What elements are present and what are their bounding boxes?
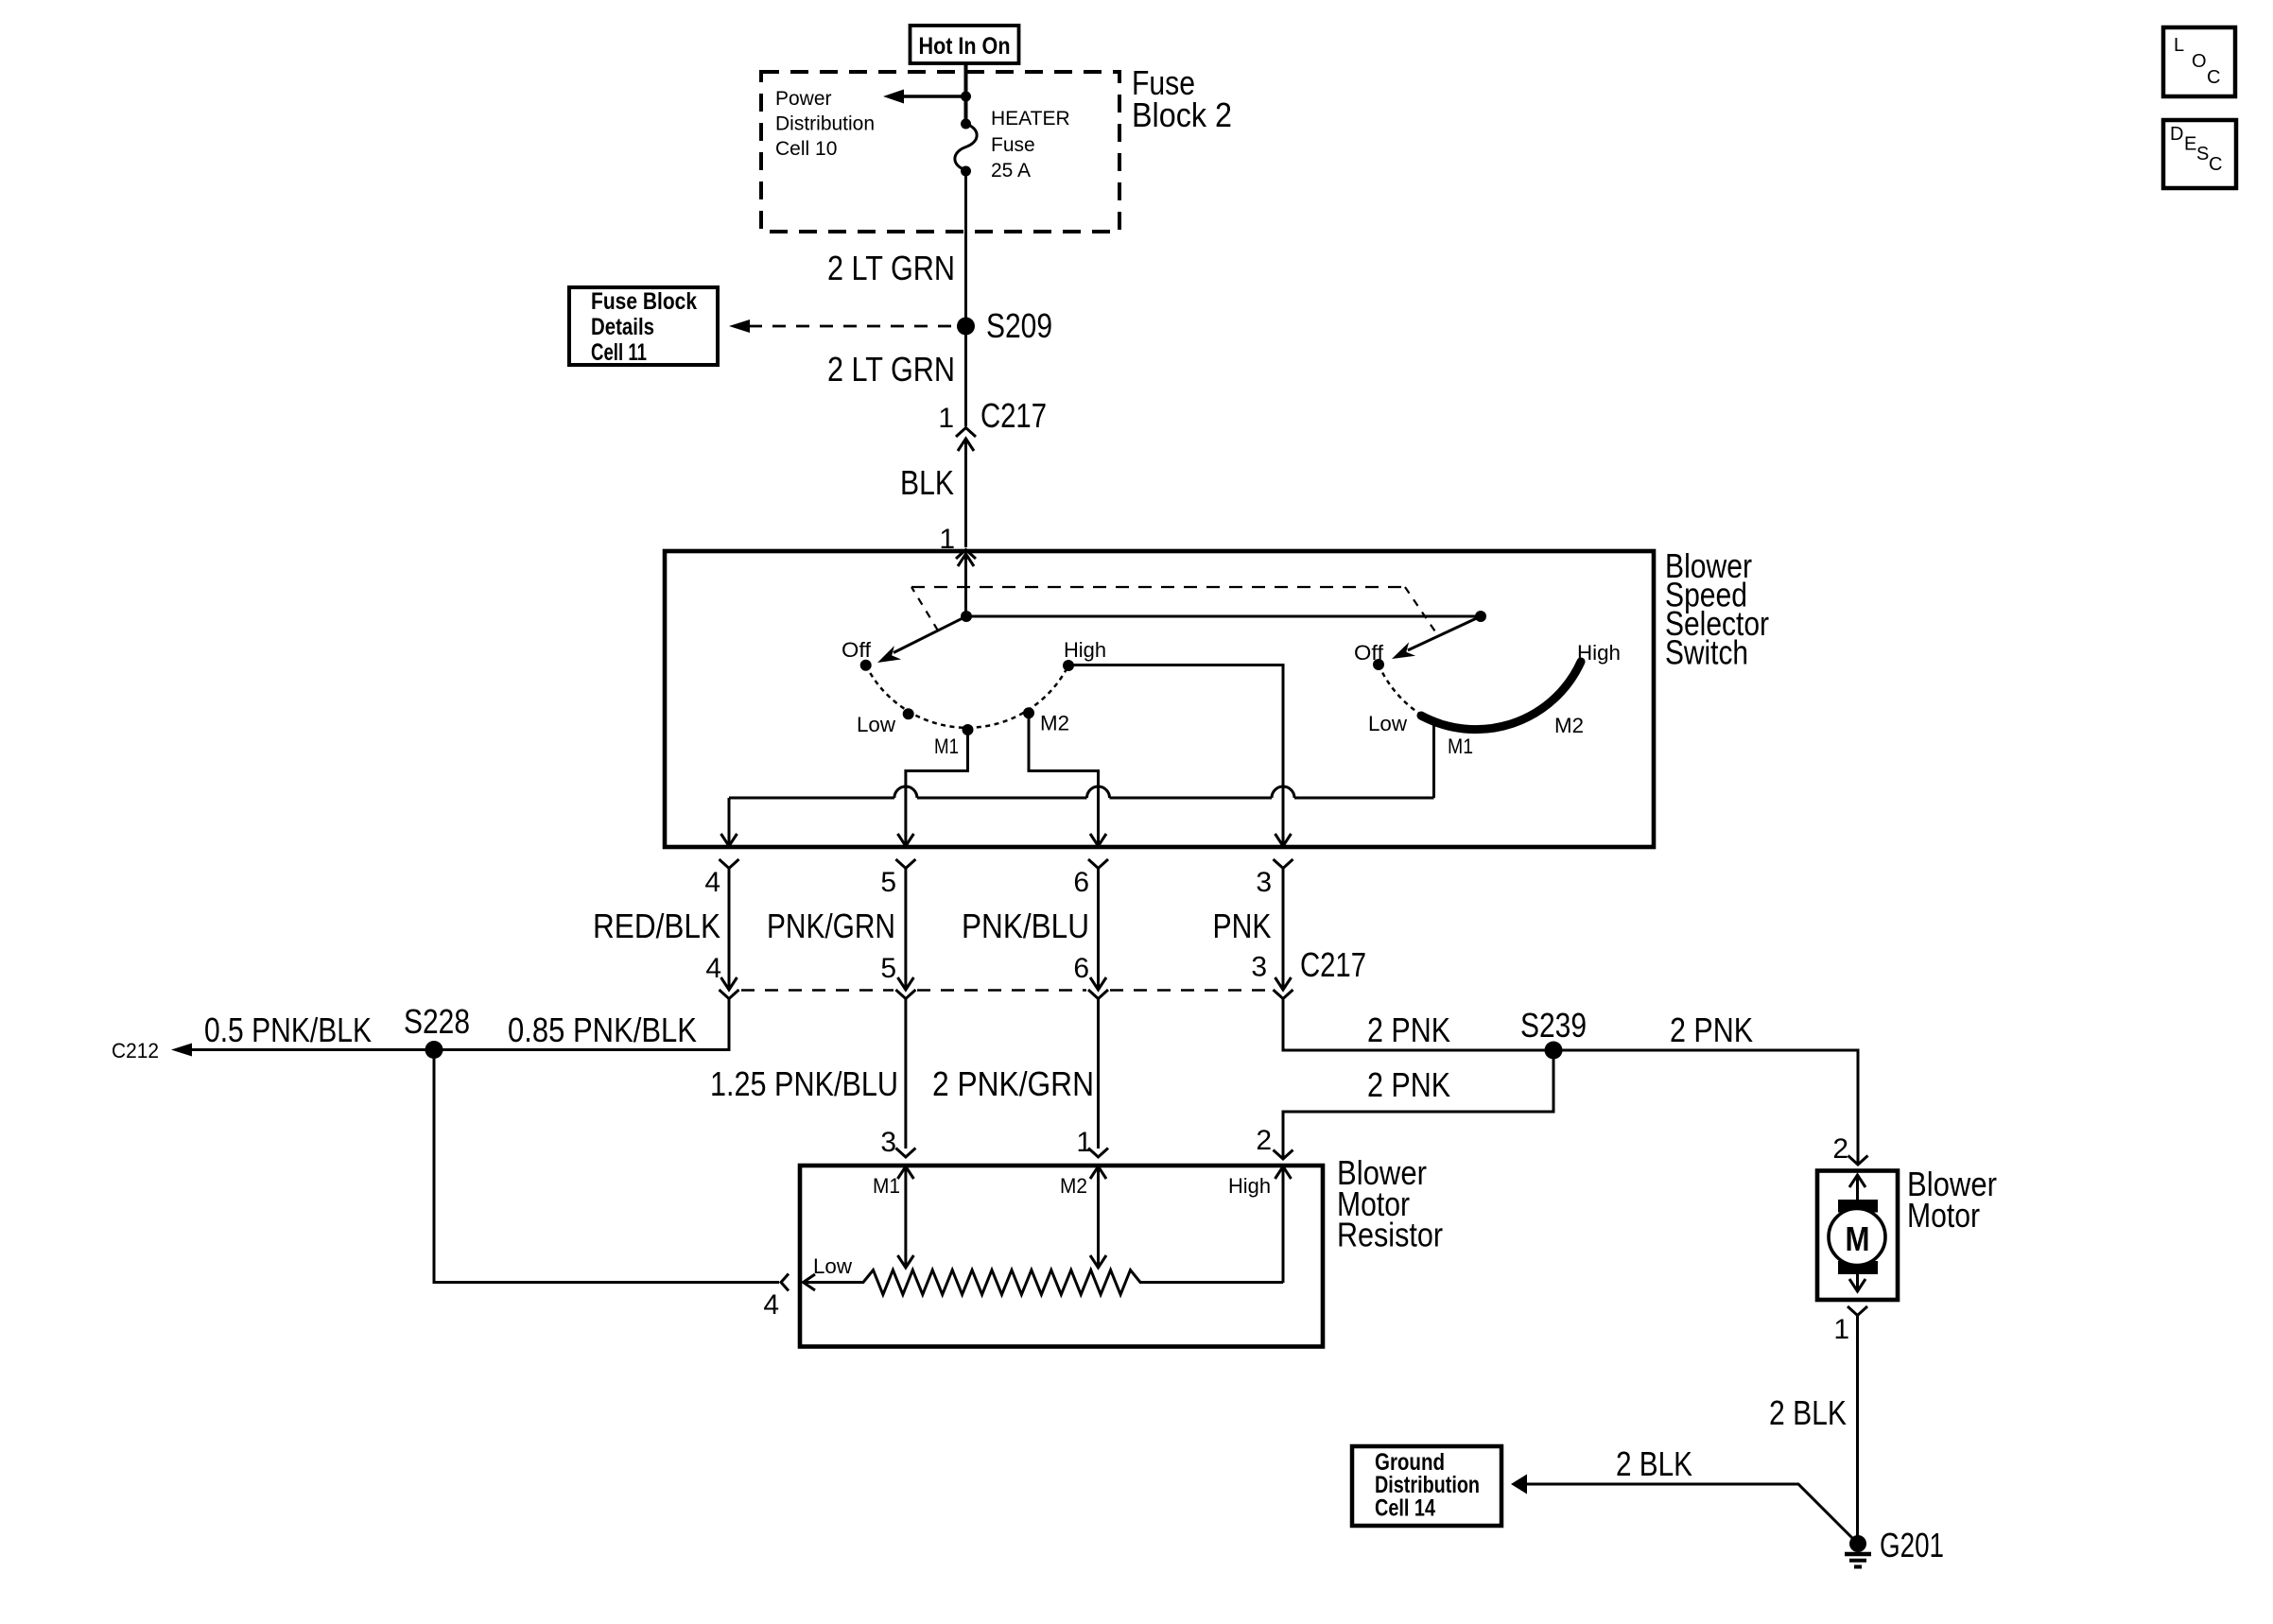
fuse block 2 dashed outline — [761, 72, 1119, 232]
wire: pivot link bar — [966, 615, 1481, 618]
svg-text:1: 1 — [1833, 1314, 1849, 1345]
svg-text:High: High — [1577, 641, 1621, 665]
svg-text:S209: S209 — [986, 306, 1052, 345]
svg-text:Fuse: Fuse — [991, 134, 1035, 156]
svg-text:C217: C217 — [980, 396, 1047, 435]
svg-text:3: 3 — [1256, 867, 1272, 898]
svg-text:2 LT GRN: 2 LT GRN — [827, 350, 955, 389]
svg-text:S239: S239 — [1520, 1006, 1587, 1045]
svg-text:G201: G201 — [1880, 1526, 1944, 1564]
svg-text:M1: M1 — [934, 734, 959, 758]
svg-text:Off: Off — [1354, 641, 1384, 665]
svg-text:3: 3 — [880, 1127, 896, 1158]
svg-text:Off: Off — [842, 638, 872, 662]
switch position M1 (left) — [934, 724, 974, 758]
blower motor box — [1817, 1171, 1898, 1301]
svg-text:RED/BLK: RED/BLK — [593, 907, 720, 945]
svg-text:O: O — [2192, 51, 2207, 72]
wiper arrow right — [1392, 616, 1481, 659]
wire: M1 contact to pin 5 — [906, 730, 968, 846]
wire: Hot In On down into fuse block — [964, 63, 968, 124]
C217 pin 4 — [705, 953, 738, 999]
svg-text:4: 4 — [763, 1289, 779, 1321]
wire: pin4 down to S228 run — [176, 999, 729, 1050]
wire: ground run 2 BLK — [1527, 1444, 1858, 1544]
svg-text:Cell 10: Cell 10 — [775, 138, 837, 160]
svg-text:4: 4 — [705, 953, 721, 984]
switch pin 3 connector — [1256, 859, 1293, 898]
wire: M2 contact to pin 6 — [1029, 713, 1099, 846]
wire pin4 to C217 — [728, 869, 731, 990]
switch position High (left) — [1063, 638, 1106, 671]
svg-text:PNK/BLU: PNK/BLU — [962, 907, 1089, 945]
switch position Off (right) — [1354, 641, 1384, 670]
splice S239 — [1520, 1006, 1587, 1060]
svg-text:Distribution: Distribution — [775, 113, 875, 135]
wiper arrow left — [877, 616, 966, 663]
arrow from ground distribution — [1511, 1475, 1527, 1494]
blower motor connector pin 1 — [1833, 1306, 1867, 1345]
resistor element High tap — [1228, 1166, 1292, 1283]
svg-text:C217: C217 — [1300, 945, 1366, 984]
svg-text:1: 1 — [938, 403, 954, 434]
svg-text:6: 6 — [1073, 953, 1089, 984]
svg-text:2 LT GRN: 2 LT GRN — [827, 249, 955, 287]
text "Power Distribution Cell 10" — [775, 88, 875, 160]
resistor pin 4 connector (Low) — [763, 1274, 815, 1322]
component label "Fuse Block 2" — [1132, 63, 1232, 134]
svg-text:5: 5 — [880, 953, 896, 984]
switch pin 5 connector — [880, 859, 915, 898]
svg-text:M1: M1 — [1448, 734, 1473, 758]
wire: C217 to switch pin 1, BLK — [900, 439, 966, 547]
svg-text:L: L — [2174, 35, 2184, 56]
wire pin5 to C217 — [904, 869, 907, 990]
wire: fuse to S209 — [964, 171, 967, 326]
junction dot feed split — [961, 92, 971, 102]
svg-text:D: D — [2170, 124, 2183, 145]
switch pin arrows at box bottom — [721, 834, 1292, 846]
svg-text:Power: Power — [775, 88, 832, 110]
component label "Blower Speed Selector Switch" — [1665, 546, 1769, 672]
svg-text:Cell 11: Cell 11 — [591, 339, 647, 366]
DESC reference box — [2163, 120, 2236, 188]
svg-text:M1: M1 — [873, 1174, 900, 1198]
component label "Blower Motor" — [1907, 1165, 1997, 1235]
svg-text:High: High — [1064, 638, 1106, 662]
dashed rotor arc right — [1379, 665, 1421, 715]
svg-text:Low: Low — [1368, 712, 1407, 735]
svg-text:1: 1 — [1076, 1127, 1092, 1158]
wire: S239 right to motor drop — [1553, 1050, 1858, 1163]
svg-text:0.85 PNK/BLK: 0.85 PNK/BLK — [508, 1011, 697, 1049]
wire: motor to G201, 2 BLK — [1769, 1316, 1858, 1545]
svg-text:2 PNK: 2 PNK — [1367, 1065, 1450, 1104]
wire: pin5 down to resistor pin 3 — [904, 999, 907, 1149]
svg-text:Low: Low — [813, 1254, 852, 1278]
svg-text:Details: Details — [591, 314, 654, 340]
resistor element M1 tap — [873, 1166, 913, 1268]
svg-text:Block 2: Block 2 — [1132, 95, 1232, 134]
motor M symbol — [1829, 1175, 1885, 1291]
svg-text:M2: M2 — [1040, 712, 1069, 735]
splice S228 — [404, 1002, 470, 1059]
svg-text:Resistor: Resistor — [1337, 1216, 1443, 1254]
switch pin 4 connector — [704, 859, 738, 898]
box "Ground Distribution Cell 14" — [1352, 1446, 1501, 1526]
svg-text:3: 3 — [1251, 952, 1267, 983]
svg-text:High: High — [1228, 1174, 1271, 1198]
ground G201 — [1845, 1526, 1944, 1567]
dashed arrow to Fuse Block Details — [729, 320, 957, 333]
svg-text:HEATER: HEATER — [991, 108, 1070, 130]
svg-text:2: 2 — [1832, 1133, 1848, 1165]
resistor pin 1 connector — [1076, 1127, 1108, 1158]
svg-text:C: C — [2209, 154, 2222, 175]
resistor element M2 tap — [1060, 1166, 1106, 1268]
svg-text:PNK: PNK — [1213, 907, 1272, 945]
dashed rotor arc left — [866, 665, 1068, 728]
svg-text:Motor: Motor — [1907, 1196, 1980, 1235]
svg-text:Hot In On: Hot In On — [919, 33, 1011, 60]
svg-text:0.5 PNK/BLK: 0.5 PNK/BLK — [204, 1011, 372, 1049]
thick contact arc right (Low-M1-M2-High) — [1421, 662, 1581, 730]
svg-text:M2: M2 — [1554, 714, 1584, 737]
svg-text:M2: M2 — [1060, 1174, 1087, 1198]
svg-text:4: 4 — [704, 867, 720, 898]
connector C217 pin 1 (top) — [938, 396, 1047, 451]
connector C217 dashed body — [741, 989, 1272, 992]
svg-text:2 BLK: 2 BLK — [1769, 1393, 1847, 1432]
resistor pin 2 connector — [1256, 1125, 1293, 1159]
svg-text:25 A: 25 A — [991, 160, 1031, 181]
wire: bus riser to right switch Low — [1432, 721, 1435, 798]
svg-text:2 BLK: 2 BLK — [1616, 1444, 1692, 1483]
arrow to C212 — [171, 1044, 192, 1057]
wire: into switch with up arrow — [958, 554, 974, 616]
LOC reference box — [2163, 27, 2235, 96]
wire: S228 down to resistor Low — [434, 1050, 779, 1283]
blower speed selector switch box — [665, 551, 1654, 847]
switch position Off (left) — [842, 638, 872, 671]
svg-text:2 PNK/GRN: 2 PNK/GRN — [932, 1064, 1094, 1103]
svg-text:M: M — [1846, 1219, 1870, 1258]
C217 pin 5 — [880, 953, 915, 999]
text "HEATER Fuse 25 A" — [991, 108, 1070, 181]
fuse F (HEATER 25 A) — [955, 119, 977, 177]
svg-text:BLK: BLK — [900, 463, 954, 502]
node: wiper pivot right — [1475, 611, 1486, 622]
switch position M2 (left) — [1023, 707, 1069, 734]
wire pin6 to C217 — [1097, 869, 1100, 990]
resistor pin 3 connector — [880, 1127, 915, 1158]
svg-text:S228: S228 — [404, 1002, 470, 1041]
svg-text:2 PNK: 2 PNK — [1670, 1011, 1753, 1049]
svg-text:PNK/GRN: PNK/GRN — [767, 907, 895, 945]
wire: pin6 down to resistor pin 1 — [1097, 999, 1100, 1149]
svg-text:2 PNK: 2 PNK — [1367, 1011, 1450, 1049]
svg-text:C212: C212 — [112, 1039, 159, 1063]
switch pin 1 entry connector — [939, 524, 976, 559]
wire: S239 branch to resistor pin 2 — [1283, 1050, 1553, 1157]
wire: S209 to C217 pin 1 — [964, 326, 967, 426]
C217 pin 6 — [1073, 953, 1108, 999]
resistor zigzag element — [804, 1270, 1284, 1295]
svg-text:Low: Low — [857, 713, 895, 736]
power label box "Hot In On" — [911, 26, 1019, 63]
svg-text:5: 5 — [880, 867, 896, 898]
wire pin3 to C217 — [1282, 869, 1285, 990]
node: wiper pivot left — [961, 611, 972, 622]
switch position Low (left) — [857, 708, 914, 736]
splice S209 — [957, 306, 1052, 345]
wire: pin3 down and right to S239 — [1283, 999, 1553, 1051]
blower motor connector pin 2 — [1832, 1133, 1867, 1165]
blower motor resistor box — [800, 1166, 1323, 1347]
wire: High contact to pin 3 — [1068, 665, 1283, 847]
svg-text:C: C — [2207, 67, 2220, 88]
svg-text:S: S — [2196, 144, 2209, 164]
svg-text:6: 6 — [1073, 867, 1089, 898]
svg-text:Switch: Switch — [1665, 633, 1748, 672]
component label "Blower Motor Resistor" — [1337, 1153, 1443, 1254]
box "Fuse Block Details Cell 11" — [569, 287, 718, 366]
svg-text:1.25 PNK/BLU: 1.25 PNK/BLU — [710, 1064, 898, 1103]
svg-text:Cell 14: Cell 14 — [1375, 1495, 1435, 1522]
arrow to Power Distribution — [883, 90, 966, 104]
C217 pin 3 — [1251, 952, 1293, 999]
svg-text:E: E — [2184, 134, 2196, 155]
switch pin 6 connector — [1073, 859, 1108, 898]
svg-text:2: 2 — [1256, 1125, 1272, 1156]
wire: bus to pin 4 with hops — [729, 786, 1434, 846]
svg-text:Fuse Block: Fuse Block — [591, 288, 697, 315]
dashed mechanical linkage — [911, 587, 938, 631]
